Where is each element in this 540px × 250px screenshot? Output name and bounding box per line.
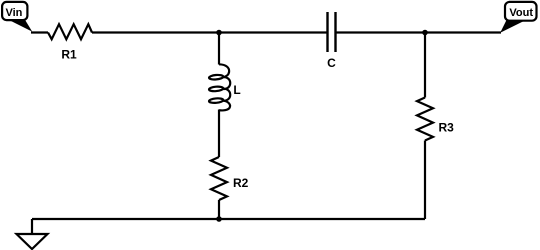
flag Vin box [2,2,27,20]
wire capacitor to Vout [337,31,502,33]
wire R3 to bottom rail [424,141,426,220]
bottom rail wire [32,218,425,220]
resistor R2 [211,157,227,200]
svg-text:Vout: Vout [509,7,533,19]
flag Vin tail [7,19,32,32]
wire node B down to R3 [424,33,426,98]
flag Vout tail [500,19,528,33]
ground [17,234,48,249]
node G junction dot (bottom of R2) [216,216,222,222]
node A junction dot (top of L branch) [216,30,222,36]
wire inductor to R2 [218,110,220,158]
wire ground stub [31,219,33,234]
wire Vin to R1 [31,31,48,33]
inductor L [209,64,230,110]
svg-text:R2: R2 [233,176,249,190]
svg-text:R3: R3 [439,121,455,135]
capacitor C right plate [334,12,336,52]
wire R1 to capacitor [92,31,327,33]
node B junction dot (top of R3 branch) [422,30,428,36]
resistor R3 [417,98,433,141]
svg-text:R1: R1 [61,48,77,62]
svg-text:Vin: Vin [5,7,22,19]
svg-text:L: L [233,83,240,97]
wire node A down to inductor [218,33,220,65]
capacitor C left plate [326,12,328,52]
resistor R1 [48,24,92,39]
svg-text:C: C [327,56,336,70]
wire R2 to bottom rail [218,200,220,219]
flag Vout box [505,2,537,21]
